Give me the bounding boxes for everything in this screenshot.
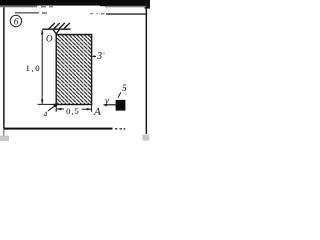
leader arrow 3 (points to right edge of plate) bbox=[93, 55, 96, 57]
scan artifact: grey rule under band left bbox=[0, 6, 37, 8]
scan artifact: black top band bbox=[0, 0, 150, 6]
svg-text:A: A bbox=[93, 106, 101, 118]
ceiling line bbox=[42, 28, 70, 30]
scan artifact: left border line bbox=[3, 7, 5, 130]
dimension line 1,0 (vertical) bbox=[41, 30, 43, 104]
scan artifact: black blob top-right corner bbox=[145, 0, 150, 9]
leader 4 with dot at bottom-left corner of plate bbox=[54, 104, 57, 107]
bullet (black square) bbox=[116, 100, 126, 111]
velocity arrow v bbox=[105, 104, 116, 106]
pivot triangle at O bbox=[53, 30, 59, 34]
extension line bottom-left bbox=[38, 103, 57, 105]
scan artifact: thin rule y=13 dots bbox=[90, 13, 93, 14]
figure number badge: circled 6 bbox=[10, 15, 21, 26]
svg-text:6: 6 bbox=[14, 18, 19, 28]
scan artifact: grey blob bottom-left bbox=[0, 136, 9, 141]
svg-text:4: 4 bbox=[44, 109, 48, 118]
extension line below plate left edge bbox=[55, 105, 57, 112]
leader 5 bbox=[118, 92, 121, 97]
extension line below plate right edge bbox=[91, 105, 93, 112]
svg-text:v: v bbox=[105, 96, 109, 106]
scan artifact: grey rule under band right bbox=[105, 6, 146, 8]
scan artifact: bottom rule bbox=[4, 128, 113, 130]
scan artifact: right border line bbox=[146, 7, 148, 134]
svg-text:O: O bbox=[46, 34, 53, 44]
plate (hatched rectangle) bbox=[56, 35, 91, 105]
scan artifact: thin rule y=14 right segment bbox=[106, 13, 147, 15]
scan artifact: grey blob bottom-right bbox=[142, 135, 149, 141]
svg-text:0,5: 0,5 bbox=[66, 106, 79, 116]
svg-text:1,0: 1,0 bbox=[26, 63, 42, 73]
ceiling hatching ticks bbox=[49, 23, 55, 29]
dimension line 0,5 (horizontal) bbox=[57, 108, 64, 110]
svg-text:5: 5 bbox=[122, 84, 127, 94]
scan artifact: thin rule y=13 left segment bbox=[15, 12, 39, 13]
svg-text:3: 3 bbox=[96, 51, 102, 62]
faint scan smudge right of 3 bbox=[102, 52, 105, 54]
